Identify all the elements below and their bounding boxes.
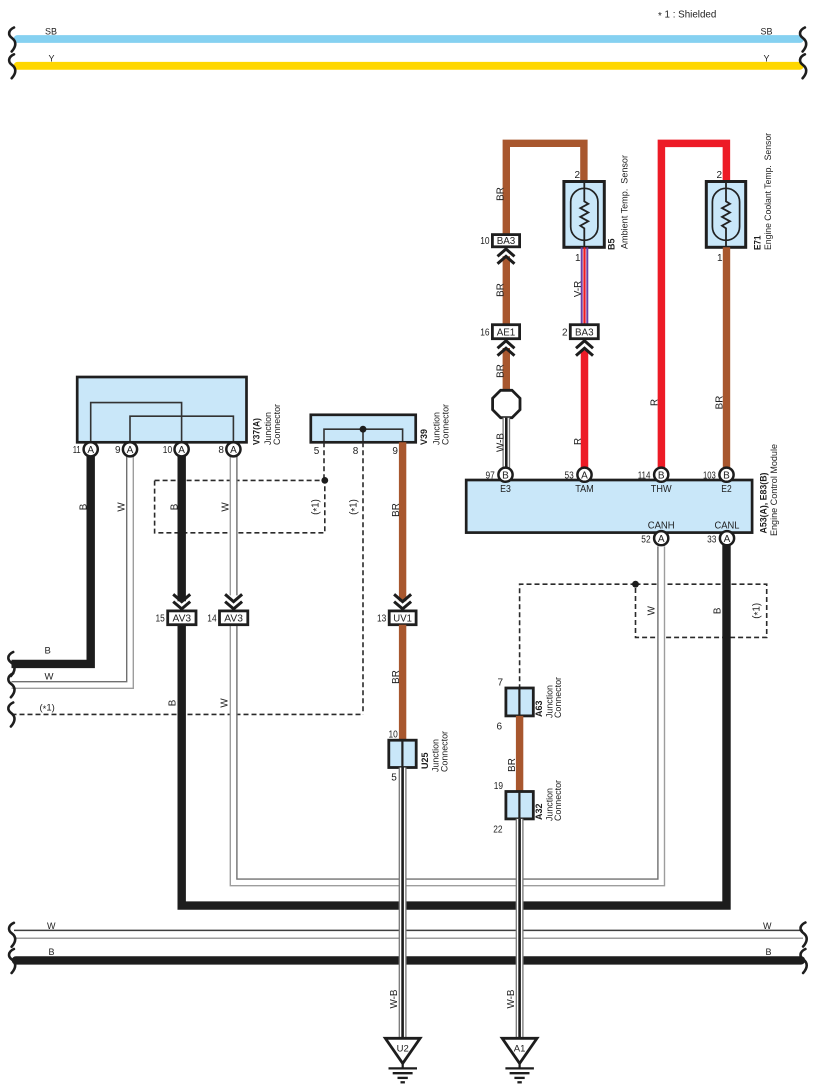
chevrons below BA3 pin2 xyxy=(576,341,593,356)
svg-text:CANH: CANH xyxy=(648,520,675,531)
break symbol SB left xyxy=(9,28,15,52)
svg-text:Connector: Connector xyxy=(439,731,449,772)
wire BR UV1 to U25 xyxy=(399,625,406,741)
break symbols W bus xyxy=(9,923,15,947)
break symbol W wire left xyxy=(8,673,14,697)
shield dashed drop V39 pin8 to bottom xyxy=(362,442,364,714)
svg-text:A: A xyxy=(127,445,134,456)
svg-text:BR: BR xyxy=(495,187,506,201)
svg-text:2: 2 xyxy=(716,170,722,181)
wire BR loop from BA3 up over to B5 pin 2 xyxy=(506,143,584,235)
junction connector U25 box xyxy=(389,740,416,767)
terminal 52 A CANH xyxy=(641,520,674,545)
break symbol Y right xyxy=(800,54,806,78)
chevrons below AE1 xyxy=(498,341,515,356)
svg-text:2: 2 xyxy=(574,170,580,181)
svg-text:B: B xyxy=(168,699,179,706)
svg-text:BA3: BA3 xyxy=(497,235,516,247)
svg-text:A1: A1 xyxy=(514,1044,526,1055)
svg-text:* 1 : Shielded: * 1 : Shielded xyxy=(658,10,716,23)
svg-text:1: 1 xyxy=(717,253,723,264)
svg-text:103: 103 xyxy=(703,470,716,481)
terminal 103 B E2 xyxy=(703,468,734,495)
svg-text:8: 8 xyxy=(353,446,359,457)
wire W-B filter to ECM 97 xyxy=(503,418,509,468)
svg-text:W: W xyxy=(116,502,127,512)
V37 internal link 9-8 xyxy=(130,416,233,441)
wire BR AE1 to noise filter xyxy=(503,348,510,391)
svg-text:14: 14 xyxy=(207,614,217,625)
svg-text:V-R: V-R xyxy=(573,281,584,297)
svg-text:BR: BR xyxy=(715,396,726,410)
svg-text:BR: BR xyxy=(507,758,518,772)
svg-text:8: 8 xyxy=(218,445,224,456)
svg-text:B: B xyxy=(658,470,665,481)
wire BR from E71 pin 1 to ECM 103 xyxy=(723,247,730,468)
svg-text:22: 22 xyxy=(493,824,503,835)
svg-text:5: 5 xyxy=(314,446,320,457)
shield junction dot box1 xyxy=(321,477,328,484)
ground U2 xyxy=(385,1038,420,1082)
ECM box A53 E83 xyxy=(466,480,752,533)
svg-text:UV1: UV1 xyxy=(393,613,412,625)
svg-text:THW: THW xyxy=(651,484,672,495)
shield dashed drop V39 pin5 xyxy=(323,442,325,480)
wire W bus bottom xyxy=(14,930,803,938)
wire B V37 pin11 to left edge xyxy=(12,456,91,664)
connector code AV3 pin 15 xyxy=(168,611,196,625)
svg-text:16: 16 xyxy=(480,327,490,338)
svg-text:Connector: Connector xyxy=(441,404,451,445)
svg-text:BR: BR xyxy=(391,503,402,517)
shield dashed box around B W wires xyxy=(155,480,325,532)
svg-text:52: 52 xyxy=(641,534,651,545)
wire R BA3 to ECM 53 xyxy=(581,351,589,469)
terminal 97 B E3 xyxy=(486,468,513,495)
svg-text:Ambient Temp. Sensor: Ambient Temp. Sensor xyxy=(620,155,630,249)
svg-text:(*1): (*1) xyxy=(349,499,362,515)
junction connector A63 box xyxy=(506,688,533,716)
svg-text:Connector: Connector xyxy=(272,404,282,445)
svg-text:R: R xyxy=(650,399,661,406)
svg-text:TAM: TAM xyxy=(575,484,594,495)
svg-text:W: W xyxy=(763,921,772,931)
svg-text:B: B xyxy=(502,470,509,481)
svg-text:V37(A): V37(A) xyxy=(252,418,263,445)
svg-text:W-B: W-B xyxy=(389,989,400,1008)
svg-text:E3: E3 xyxy=(500,484,511,495)
svg-text:A: A xyxy=(724,534,731,545)
svg-text:E71: E71 xyxy=(753,235,764,250)
chevrons above UV1 xyxy=(394,594,411,609)
svg-text:7: 7 xyxy=(497,677,503,688)
svg-text:R: R xyxy=(573,438,584,445)
junction connector A32 box xyxy=(506,792,533,819)
svg-text:10: 10 xyxy=(163,445,173,456)
svg-text:11: 11 xyxy=(73,445,81,456)
svg-text:9: 9 xyxy=(392,446,398,457)
svg-text:U2: U2 xyxy=(397,1044,409,1055)
V39 internal junction dot xyxy=(360,426,367,433)
svg-text:B5: B5 xyxy=(607,238,618,250)
chevrons above AV3 pin15 xyxy=(173,594,190,609)
connector code AE1 pin 16 xyxy=(492,325,519,339)
svg-text:W: W xyxy=(647,605,658,615)
wire W CAN high loop V37 pin8 to ECM 52 xyxy=(230,456,664,886)
shield dashed link to A63 pin7 xyxy=(520,584,636,688)
svg-text:Engine Control Module: Engine Control Module xyxy=(769,444,779,536)
svg-text:A32: A32 xyxy=(534,804,545,821)
svg-text:SB: SB xyxy=(761,27,773,37)
sensor B5 element lead and zigzag xyxy=(580,182,588,248)
connector code BA3 pin 10 xyxy=(492,235,519,247)
chevrons above AV3 pin14 xyxy=(225,594,242,609)
wire V-R B5 pin1 to BA3 xyxy=(582,247,588,325)
svg-text:33: 33 xyxy=(707,534,717,545)
svg-text:Engine Coolant Temp. Sensor: Engine Coolant Temp. Sensor xyxy=(763,133,773,250)
noise filter octagon xyxy=(493,390,520,417)
svg-text:U25: U25 xyxy=(420,752,431,769)
svg-text:B: B xyxy=(723,470,730,481)
svg-text:1: 1 xyxy=(575,253,581,264)
wire BR V39 pin9 to UV1 xyxy=(399,442,406,601)
svg-text:W-B: W-B xyxy=(495,433,506,452)
svg-text:B: B xyxy=(78,503,89,510)
sensor E71 thermistor stadium xyxy=(712,188,739,240)
sensor B5 box xyxy=(564,182,604,248)
junction connector V37(A) box xyxy=(77,377,246,442)
svg-text:53: 53 xyxy=(565,470,575,481)
svg-text:V39: V39 xyxy=(419,429,430,445)
wire B CAN low loop V37 pin10 to ECM 33 xyxy=(177,456,185,602)
wire W V37 pin9 to left edge xyxy=(12,456,134,689)
wire SB bus xyxy=(18,35,801,43)
svg-text:A: A xyxy=(658,534,665,545)
svg-text:B: B xyxy=(766,947,772,957)
svg-text:Connector: Connector xyxy=(553,780,563,821)
break symbol Y left xyxy=(9,54,15,78)
svg-text:AE1: AE1 xyxy=(497,326,516,338)
svg-text:Y: Y xyxy=(764,54,770,64)
svg-text:BR: BR xyxy=(495,283,506,297)
connector code UV1 pin 13 xyxy=(389,611,416,625)
shield junction dot box2 xyxy=(632,581,639,588)
svg-text:A53(A), E83(B): A53(A), E83(B) xyxy=(759,473,770,534)
svg-text:SB: SB xyxy=(45,27,57,37)
wire W-B A32 to ground A1 xyxy=(516,819,523,1039)
wire Y bus xyxy=(18,62,801,70)
svg-text:A: A xyxy=(87,445,94,456)
svg-text:W: W xyxy=(47,921,56,931)
sensor E71 element lead and zigzag xyxy=(722,182,730,248)
junction connector V39 box xyxy=(311,415,416,443)
svg-text:BR: BR xyxy=(391,670,402,684)
break symbol shield left xyxy=(8,703,14,727)
terminal 114 B THW xyxy=(638,468,672,495)
svg-text:97: 97 xyxy=(486,470,496,481)
terminal 53 A TAM xyxy=(565,468,594,495)
svg-text:10: 10 xyxy=(389,730,399,741)
svg-text:B: B xyxy=(713,607,724,614)
break symbols B bus xyxy=(9,949,15,973)
svg-text:5: 5 xyxy=(391,773,397,784)
svg-text:15: 15 xyxy=(156,614,166,625)
svg-text:W: W xyxy=(220,698,231,708)
sensor E71 box xyxy=(706,182,745,248)
V37 terminal circles pins 11 9 10 8 xyxy=(73,442,241,456)
wire BR BA3 to AE1 xyxy=(503,256,510,325)
svg-text:E2: E2 xyxy=(721,484,732,495)
svg-text:9: 9 xyxy=(115,445,121,456)
svg-text:6: 6 xyxy=(496,722,502,733)
wire B bus bottom xyxy=(16,956,801,964)
svg-text:A: A xyxy=(178,445,185,456)
svg-text:W-B: W-B xyxy=(506,989,517,1008)
connector code BA3 pin 2 xyxy=(570,325,598,339)
svg-text:(*1): (*1) xyxy=(311,499,324,515)
V39 internal link xyxy=(324,429,403,441)
V37 internal link 11-10 xyxy=(91,403,182,441)
connector code AV3 pin 14 xyxy=(220,611,248,625)
svg-text:AV3: AV3 xyxy=(224,613,243,625)
svg-text:Connector: Connector xyxy=(553,677,563,718)
svg-text:W: W xyxy=(45,672,54,683)
svg-text:(*1): (*1) xyxy=(752,603,765,619)
svg-text:2: 2 xyxy=(562,327,568,338)
svg-text:114: 114 xyxy=(638,470,651,481)
shield dashed box around CANH CANL xyxy=(636,584,767,637)
svg-text:Y: Y xyxy=(49,54,55,64)
svg-text:13: 13 xyxy=(377,614,387,625)
svg-text:10: 10 xyxy=(480,236,490,247)
break symbol SB right xyxy=(800,28,806,52)
wire W-B U25 to ground U2 xyxy=(399,768,406,1039)
svg-text:CANL: CANL xyxy=(715,520,740,531)
svg-text:B: B xyxy=(49,947,55,957)
svg-text:B: B xyxy=(45,645,51,656)
chevrons below BA3 xyxy=(498,249,515,264)
sensor B5 thermistor stadium xyxy=(571,188,598,240)
wire BR A63 to A32 xyxy=(516,716,523,792)
break symbol B wire left xyxy=(8,652,14,676)
shield dashed horizontal to left edge xyxy=(12,713,364,715)
svg-text:(*1): (*1) xyxy=(40,703,55,716)
svg-text:A: A xyxy=(230,445,237,456)
svg-text:BA3: BA3 xyxy=(575,326,594,338)
svg-text:A: A xyxy=(581,470,588,481)
wire R loop from THW up over to E71 pin 2 xyxy=(661,143,726,468)
svg-text:19: 19 xyxy=(494,781,504,792)
svg-text:AV3: AV3 xyxy=(173,613,192,625)
ground A1 xyxy=(502,1038,537,1082)
svg-text:BR: BR xyxy=(495,364,506,378)
terminal 33 A CANL xyxy=(707,520,740,545)
svg-text:A63: A63 xyxy=(534,701,545,718)
